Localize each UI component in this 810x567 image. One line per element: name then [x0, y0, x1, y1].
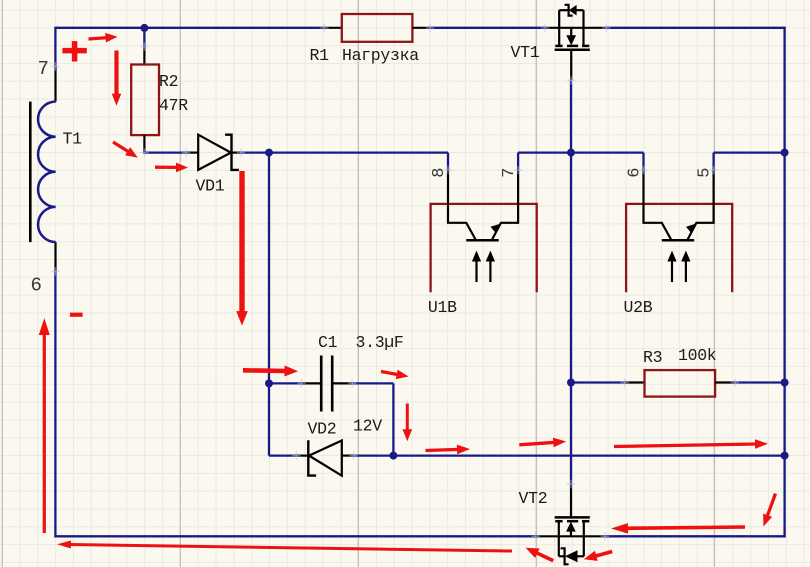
- red long arrow down from VD1: [239, 171, 244, 313]
- red arrow diagonal to R2 bottom: [113, 142, 129, 152]
- svg-text:R3: R3: [643, 348, 662, 367]
- optocoupler U1B collector pin 8: [448, 170, 476, 239]
- transformer T1 core bar: [29, 102, 32, 243]
- transformer T1 pin 6 lead: [54, 242, 56, 271]
- pin tick: [602, 27, 610, 29]
- optocoupler U2B body outline: [626, 204, 732, 292]
- optocoupler U2B emitter pin 5: [688, 170, 714, 239]
- transistor VT2 body diode triangle: [565, 550, 578, 562]
- transistor VT1 drain lead (top rail through symbol): [545, 27, 606, 29]
- pin tick: [567, 79, 575, 81]
- pin tick: [541, 27, 549, 29]
- wire U1B pin 7 stub: [517, 153, 519, 170]
- transistor VT2 source lead (bottom rail through symbol): [536, 535, 605, 537]
- wire R3 left: [571, 381, 625, 383]
- wire U2B pin 6 stub: [642, 153, 644, 170]
- junction VD1 node: [265, 149, 273, 157]
- red arrow up-left from VT2: [536, 552, 554, 560]
- transistor VT2 left stub: [558, 521, 560, 556]
- wire top rail left segment: [55, 27, 324, 29]
- pin tick: [514, 169, 522, 171]
- wire top rail right segment (VT1 to right rail): [606, 27, 785, 29]
- junction right rail / pin5: [781, 149, 789, 157]
- red minus sign: [70, 313, 83, 317]
- wire U1B pin 8 stub: [447, 153, 449, 170]
- resistor R3 body: [645, 370, 716, 397]
- transistor VT2 body diode zener bar: [561, 548, 569, 564]
- wire U2B pin 5 stub: [712, 153, 714, 170]
- diode VD2 cathode bar with hook: [308, 440, 316, 475]
- pin tick: [320, 27, 328, 29]
- optocoupler U2B light arrow 1: [671, 260, 673, 282]
- svg-text:12V: 12V: [353, 417, 382, 436]
- svg-text:Нагрузка: Нагрузка: [342, 46, 419, 65]
- pin tick: [140, 46, 148, 48]
- svg-text:6: 6: [626, 168, 645, 178]
- wire R2 bottom to VD1 anode: [144, 151, 186, 153]
- transistor VT2 gate lead: [570, 484, 572, 517]
- pin tick: [601, 535, 609, 537]
- junction R3 right node: [781, 379, 789, 387]
- pin tick: [621, 382, 629, 384]
- transistor VT1 left stub: [558, 10, 560, 46]
- resistor R1 left lead: [324, 27, 341, 29]
- wire VD2 junction to right rail: [393, 454, 784, 456]
- optocoupler U2B base bar: [662, 239, 694, 242]
- pin tick: [444, 169, 452, 171]
- capacitor C1 left plate: [320, 356, 323, 412]
- pin tick: [532, 535, 540, 537]
- transformer T1 winding coil: [38, 102, 56, 242]
- grid major line: [179, 0, 181, 567]
- svg-text:U2B: U2B: [624, 298, 653, 317]
- grid major line: [713, 0, 715, 567]
- red arrow right to C1: [243, 368, 287, 373]
- transistor VT1 body diode top link: [559, 9, 568, 11]
- resistor R3 left lead: [625, 381, 645, 383]
- resistor R2 body: [131, 65, 159, 136]
- diode VD2 right lead: [342, 455, 354, 457]
- wire node down to C1 junction: [268, 153, 270, 384]
- pin tick: [51, 66, 59, 68]
- junction right rail / VD2 wire: [781, 452, 789, 460]
- optocoupler U2B collector pin 6: [644, 170, 672, 239]
- red arrow down right of C1: [406, 404, 409, 432]
- pin tick: [709, 169, 717, 171]
- red plus sign: [62, 48, 86, 54]
- resistor R1 right lead: [412, 27, 430, 29]
- wire bottom rail right segment: [605, 535, 786, 537]
- diode VD1 cathode lead: [232, 152, 241, 154]
- red arrow right to VD1: [155, 166, 178, 169]
- transistor VT2 gate bar: [555, 516, 590, 519]
- wire C1 junction to C1 left lead: [269, 382, 302, 384]
- wire gate node down to VT2 gate: [570, 153, 572, 485]
- transistor VT1 substrate arrow: [570, 28, 572, 37]
- wire R3 right: [735, 381, 785, 383]
- pin tick: [297, 382, 305, 384]
- junction top rail / R2: [140, 24, 148, 32]
- optocoupler U2B emitter arrow: [686, 223, 697, 233]
- svg-text:R2: R2: [159, 72, 178, 91]
- svg-text:R1: R1: [310, 46, 330, 65]
- optocoupler U1B body outline: [431, 204, 537, 292]
- optocoupler U1B base bar: [466, 239, 498, 242]
- transistor VT2 right stub: [583, 521, 585, 556]
- transistor VT1 body diode zener bar: [565, 5, 573, 16]
- pin tick: [237, 152, 245, 154]
- wire U2B pin5 to right rail: [714, 151, 785, 153]
- red arrow right on VD2 wire 1: [426, 449, 460, 450]
- transistor VT2 body diode bottom link: [559, 555, 565, 557]
- pin tick: [349, 455, 357, 457]
- wire corner to VD2 anode-side: [269, 454, 296, 456]
- wire C1 right lead to corner: [352, 382, 393, 384]
- wire VD2 to junction: [354, 454, 394, 456]
- wire C1 corner down to VD2 junction: [392, 383, 394, 455]
- transistor VT1 body diode triangle: [569, 5, 577, 16]
- diode VD2 triangle: [309, 441, 342, 476]
- svg-text:6: 6: [31, 274, 42, 296]
- pin tick: [182, 152, 190, 154]
- wire top rail middle segment (R1 to VT1): [430, 27, 545, 29]
- svg-text:VT2: VT2: [519, 489, 548, 508]
- capacitor C1 right lead: [332, 382, 352, 384]
- transformer T1 pin 7 lead: [54, 67, 56, 102]
- wire C1 junction down to VD2 level: [268, 383, 270, 455]
- wire left rail lower (T1 pin 6 to bottom corner): [54, 270, 56, 537]
- transistor VT2 substrate arrow: [570, 530, 572, 537]
- red long arrow left along bottom: [69, 545, 512, 552]
- svg-text:VD2: VD2: [308, 419, 337, 438]
- junction C1 left node: [265, 379, 273, 387]
- svg-text:5: 5: [696, 168, 715, 178]
- transistor VT1 gate bar: [555, 49, 590, 52]
- pin tick: [348, 382, 356, 384]
- red arrow top right: [89, 38, 108, 39]
- resistor R3 right lead: [715, 381, 735, 383]
- optocoupler U1B emitter pin 7: [492, 170, 518, 239]
- resistor R2 top lead: [143, 47, 145, 65]
- red arrow down beside R2: [114, 51, 118, 96]
- capacitor C1 right plate: [331, 356, 334, 412]
- diode VD1 cathode bar with zener hooks: [225, 135, 239, 170]
- red arrow left into VT2: [626, 527, 745, 528]
- optocoupler U2B light arrow 2: [685, 260, 687, 282]
- wire right rail: [783, 27, 785, 538]
- red arrow right after C1: [381, 372, 399, 375]
- svg-text:3.3µF: 3.3µF: [356, 333, 404, 352]
- junction VD2 node: [389, 452, 397, 460]
- red long arrow right on VD2 wire 3: [614, 444, 757, 447]
- pin tick: [51, 270, 59, 272]
- pin tick: [140, 152, 148, 154]
- diode VD2 left lead: [296, 455, 308, 457]
- svg-text:T1: T1: [63, 130, 83, 149]
- transistor VT1 gate lead: [570, 50, 572, 81]
- svg-text:47R: 47R: [159, 96, 188, 115]
- junction gate node: [567, 149, 575, 157]
- junction R3 left node: [567, 379, 575, 387]
- svg-text:C1: C1: [318, 333, 338, 352]
- wire VD1 cathode to U1B pin 8: [241, 151, 448, 153]
- pin tick: [426, 27, 434, 29]
- svg-text:VD1: VD1: [196, 177, 225, 196]
- red arrow down-left from VT2: [594, 552, 612, 557]
- svg-text:7: 7: [38, 58, 49, 80]
- transistor VT2 channel segments: [555, 520, 562, 523]
- pin tick: [639, 169, 647, 171]
- wire R2 top stub: [143, 28, 145, 47]
- svg-text:8: 8: [430, 168, 449, 178]
- optocoupler U1B emitter arrow: [491, 223, 502, 233]
- red arrow up left rail: [43, 333, 46, 533]
- red arrow right on VD2 wire 2: [519, 442, 555, 445]
- wire left rail upper (corner to T1 pin 7): [54, 27, 56, 67]
- optocoupler U1B light arrow 2: [489, 260, 491, 282]
- wire U1B pin7 to U2B pin6: [518, 151, 643, 153]
- svg-text:U1B: U1B: [428, 298, 457, 317]
- optocoupler U1B light arrow 1: [475, 260, 477, 282]
- resistor R1 body: [342, 14, 413, 42]
- grid major line: [535, 0, 537, 567]
- resistor R2 bottom lead: [143, 135, 145, 154]
- red arrow down at right rail: [767, 494, 776, 518]
- capacitor C1 left lead: [302, 382, 322, 384]
- transistor VT1 right stub: [582, 10, 584, 46]
- pin tick: [292, 455, 300, 457]
- wire bottom rail left segment: [54, 535, 535, 537]
- transistor VT1 channel segments: [555, 45, 562, 48]
- grid major line: [357, 0, 359, 567]
- diode VD1 triangle: [198, 135, 231, 170]
- svg-text:VT1: VT1: [511, 43, 540, 62]
- grid major line: [1, 0, 3, 567]
- pin tick: [731, 382, 739, 384]
- diode VD1 anode lead: [186, 152, 198, 154]
- pin tick: [567, 483, 575, 485]
- svg-text:100k: 100k: [678, 346, 717, 365]
- wire VT1 gate down to node: [570, 80, 572, 152]
